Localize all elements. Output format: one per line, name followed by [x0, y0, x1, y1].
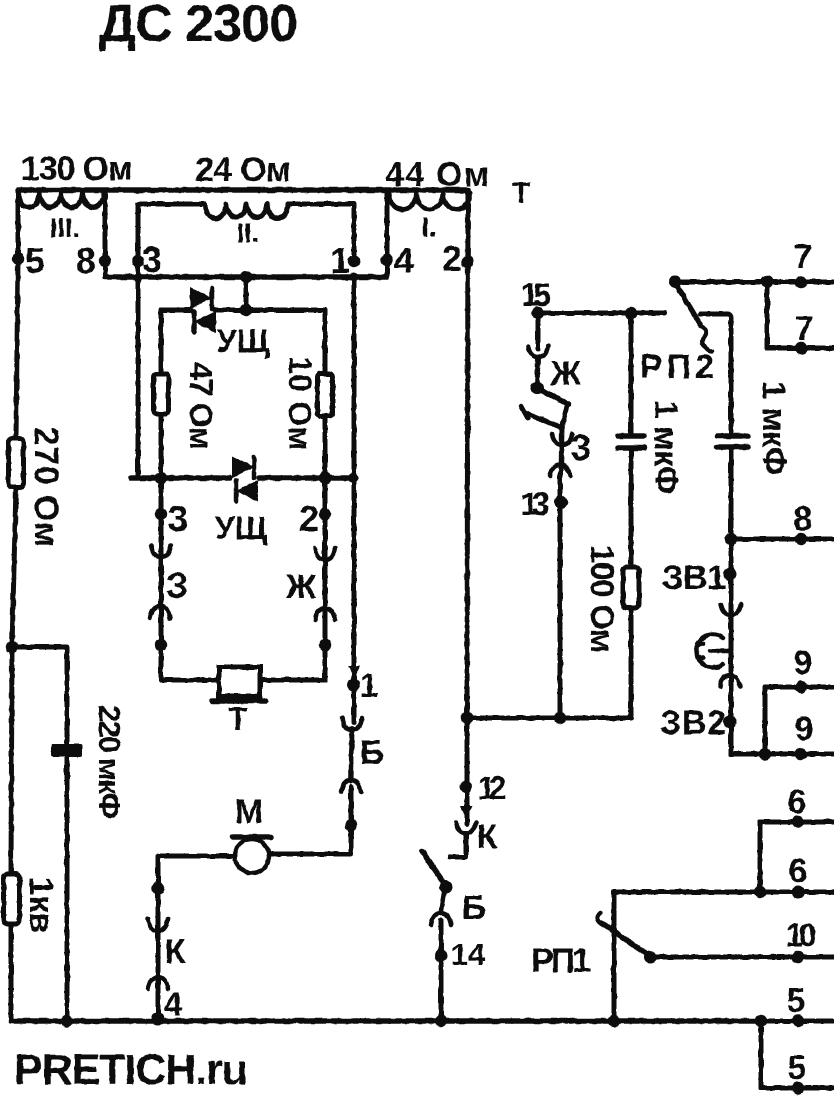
label 130 Ом (winding III resistance) [21, 150, 133, 188]
svg-text:1кв: 1кв [22, 877, 60, 933]
wire 13-branch down to node line [558, 473, 563, 718]
node terminal 5 upper [787, 982, 806, 1027]
svg-text:14: 14 [451, 937, 486, 972]
wire terminal 5 upper stub [761, 1019, 834, 1024]
svg-text:PRETICH.ru: PRETICH.ru [14, 1046, 248, 1094]
wire to ringer box T left side [161, 678, 219, 683]
svg-text:13: 13 [521, 486, 550, 522]
node terminal 10 [786, 917, 817, 963]
label РП2 [640, 348, 714, 386]
contact Б stem [351, 729, 352, 781]
svg-text:3: 3 [168, 498, 188, 539]
svg-text:8: 8 [76, 240, 96, 281]
node 3 [132, 239, 162, 280]
svg-text:24 Ом: 24 Ом [195, 151, 291, 189]
node rail/terminal-1 leg [348, 473, 358, 483]
svg-text:2: 2 [442, 238, 462, 279]
wire to ringer box T right side [260, 678, 325, 683]
contact Б stem on К branch [441, 888, 445, 912]
node terminal 9 lower [795, 710, 814, 760]
svg-text:9: 9 [794, 644, 813, 682]
contact К upper cup [148, 919, 168, 931]
resistor 270 Ом [9, 427, 66, 547]
node bus/leg-3 crossing [134, 273, 143, 282]
node junction 7 lines [761, 276, 773, 288]
node capacitor branch/bottom bus [61, 1015, 73, 1027]
title ДС 2300 [99, 0, 299, 53]
node junction 9 lines [759, 748, 771, 760]
node bus/leg-1 crossing [350, 273, 359, 282]
label 44 Ом (winding I resistance) [385, 156, 489, 194]
label РП1 [531, 942, 591, 980]
contact Б cup on К branch [431, 913, 451, 925]
svg-text:З: З [166, 565, 189, 606]
bell clapper tick [696, 644, 730, 658]
svg-text:РП2: РП2 [640, 348, 714, 386]
node 1 (pin) [347, 667, 378, 705]
svg-text:4: 4 [394, 240, 414, 281]
wire 12 branch down to contact К [465, 718, 470, 824]
svg-text:1 мкФ: 1 мкФ [648, 400, 685, 494]
node rail/right leg [319, 472, 331, 484]
label T (transformer designator) [512, 177, 530, 210]
contact РП1 hook [597, 913, 603, 925]
contact blade left serif [521, 406, 528, 419]
svg-text:7: 7 [795, 310, 814, 348]
svg-text:3: 3 [571, 427, 591, 468]
wire snubber branch down to node line [560, 608, 631, 718]
wire between capacitor and resistor 100 Ом [629, 448, 634, 567]
node terminal 9 upper [794, 644, 813, 693]
winding II of transformer T [138, 204, 354, 261]
contact З (lower cup) [150, 606, 170, 618]
wire left column down to resistor 1кв [11, 647, 12, 874]
winding I of transformer T [389, 193, 470, 242]
wire inner box right leg with resistor 10 Ом [323, 310, 328, 478]
node below contact З [155, 639, 167, 651]
svg-text:1 мкФ: 1 мкФ [756, 381, 793, 475]
contact З (upper cup) [151, 545, 171, 557]
wire between 9 stubs [763, 687, 768, 754]
svg-text:10 Ом: 10 Ом [282, 356, 318, 450]
svg-text:Т: Т [228, 701, 248, 737]
svg-text:47 Ом: 47 Ом [183, 362, 219, 450]
wire terminal 2 long vertical [467, 190, 468, 718]
wire left leg of terminal 3 down to lower rail [136, 261, 141, 478]
node junction bus/centre tap [240, 271, 252, 283]
resistor 10 Ом [282, 356, 333, 450]
label Б of contact on К branch [462, 889, 486, 927]
svg-text:15: 15 [521, 277, 551, 313]
surge arrester УЩ upper (diac symbol) [190, 287, 270, 359]
node blade pivot РП2 [669, 276, 682, 289]
wire branch to capacitor 220 мкФ [12, 645, 67, 650]
node pivot of changeover blade [531, 382, 544, 395]
svg-text:I.: I. [421, 212, 436, 242]
node junction top of arrester network [240, 304, 252, 316]
label Ж of contact [285, 568, 317, 606]
bell gong (curl) [696, 635, 723, 668]
node terminal 6 upper [788, 783, 807, 828]
wire terminal 7 lower stub [767, 346, 834, 351]
wire terminal 6 upper stub [760, 820, 834, 825]
contact З cup b [550, 465, 570, 476]
svg-text:130 Ом: 130 Ом [21, 150, 133, 188]
contact Ж changeover upper cup [528, 346, 548, 357]
svg-text:4: 4 [164, 986, 183, 1024]
wire left column from node 5 down [16, 259, 18, 438]
ringer box Т [212, 667, 266, 737]
node terminal 5 lower [788, 1049, 807, 1094]
contact Ж changeover stem [537, 358, 538, 388]
node 2 on right contact branch [299, 498, 331, 539]
wire bottom bus [11, 1018, 761, 1024]
svg-text:9: 9 [795, 710, 814, 748]
svg-text:Б: Б [360, 734, 384, 772]
svg-text:ЗВ2: ЗВ2 [660, 704, 726, 742]
node 15 [521, 277, 551, 319]
wire 15 horizontal line [538, 311, 665, 316]
node junction 2-line/718 [461, 712, 473, 724]
node blade end [440, 881, 453, 894]
node 1 [330, 240, 360, 281]
wire left column to bottom bus [9, 924, 14, 1021]
contact blade lower diagonal [526, 413, 562, 428]
node blade end РП1 [644, 951, 657, 964]
label К of contact [477, 818, 498, 856]
node 2 [442, 238, 474, 279]
wire from motor left to contact К branch [158, 856, 235, 1021]
arrow on wire 12 [460, 806, 472, 818]
node ЗВ2 [660, 704, 737, 742]
node rail/left leg [155, 472, 167, 484]
contact К lower cup [148, 977, 168, 989]
node terminal 8 [794, 500, 813, 545]
node 13 [521, 486, 568, 522]
wire terminal 10 line [650, 955, 834, 960]
node 4 on bottom bus [152, 986, 183, 1026]
node junction 6 lines [754, 886, 766, 898]
wire inner box left leg with resistor 47 Ом [159, 310, 164, 478]
node terminal 6 lower [789, 852, 808, 899]
wire below blade to contact З [561, 428, 562, 473]
arrow on wire 1 [348, 666, 360, 678]
contact blade upper diagonal [537, 388, 568, 404]
contact К cup [456, 822, 476, 833]
watermark PRETICH.ru [14, 1046, 248, 1094]
contact З cup a [552, 434, 572, 445]
node 8 [76, 240, 111, 281]
wire between 7 stubs [765, 282, 770, 348]
svg-text:8: 8 [794, 500, 813, 538]
wire terminal 6 lower line [614, 890, 834, 895]
node 3 on left contact branch [155, 498, 188, 539]
contact blade right side [562, 404, 567, 428]
wire right contact branch below rail (to contact Ж) [323, 478, 328, 680]
svg-text:К: К [477, 818, 498, 856]
svg-text:2: 2 [299, 498, 319, 539]
resistor 47 Ом [154, 362, 220, 450]
wire between 5 stubs [759, 1021, 764, 1088]
wire capacitor branch down to bottom bus [65, 647, 70, 1021]
svg-text:270 Ом: 270 Ом [27, 427, 65, 547]
node junction 13-branch/718 [554, 712, 566, 724]
svg-text:ДС 2300: ДС 2300 [99, 0, 299, 53]
wire horizontal bus under windings [105, 274, 387, 280]
svg-text:Ж: Ж [285, 568, 317, 606]
svg-text:12: 12 [478, 770, 507, 806]
node 14-branch/bottom bus [435, 1015, 447, 1027]
node 4 [381, 240, 414, 281]
resistor 100 Ом [584, 545, 639, 653]
label З of contact [166, 565, 189, 606]
svg-text:5: 5 [787, 982, 806, 1020]
svg-text:III.: III. [50, 213, 80, 243]
wire snubber branch (capacitor + resistor) [629, 313, 634, 436]
node 14 [435, 937, 486, 972]
contact К fixed foot [450, 833, 466, 857]
wire bell branch corner to 9 line [731, 752, 834, 757]
node on motor wire [345, 819, 357, 831]
wire from contact Б down to bottom bus [439, 920, 444, 1021]
wire horizontal node line y718 [467, 716, 631, 721]
node above contact К [152, 882, 164, 894]
label 24 Ом (winding II resistance) [195, 151, 291, 189]
contact Б lower cup [341, 780, 361, 792]
contact РП1 blade [602, 923, 648, 955]
node 5 [12, 240, 45, 281]
wire lower rail of arrester network [131, 475, 230, 481]
wire bell branch capacitor to corner [729, 447, 734, 754]
contact РП2 blade tail [701, 326, 712, 352]
contact РП2 blade [675, 282, 701, 326]
label Б of contact [360, 734, 384, 772]
wire left column resistor to lower junction [12, 487, 16, 647]
wire leg to terminal 4 [385, 193, 390, 277]
node РП1/bottom bus [608, 1015, 620, 1027]
wire inner box top line left part [161, 308, 191, 313]
wire terminal 1 branch down to contact Б [352, 277, 357, 723]
node junction 8-line [725, 533, 737, 545]
svg-text:М: М [235, 793, 263, 831]
svg-text:Б: Б [462, 889, 486, 927]
label Ж of changeover contact [550, 355, 582, 393]
svg-text:10: 10 [786, 917, 817, 953]
contact Б upper cup [342, 718, 362, 730]
contact Ж (lower cup) [315, 608, 335, 620]
wire terminal 5 lower stub [761, 1086, 834, 1091]
surge arrester УЩ lower (diac symbol) [215, 456, 268, 546]
node junction 15-line/snubber branch [625, 307, 637, 319]
wire РП1 fixed vertical [612, 892, 617, 1021]
bell contact upper cup [721, 604, 741, 615]
node 12 [460, 770, 507, 806]
svg-text:6: 6 [789, 852, 808, 890]
contact К blade diagonal [422, 851, 446, 886]
svg-text:К: К [165, 933, 186, 971]
wire РП2 fixed segment into bell branch [700, 314, 731, 436]
wire from winding II centre tap down to surge arrester box [244, 277, 249, 310]
capacitor 1 мкФ (right) [717, 381, 793, 475]
node terminal 7 lower [795, 310, 814, 354]
resistor 1кв [4, 874, 61, 933]
svg-text:3: 3 [142, 239, 162, 280]
svg-text:Т: Т [512, 177, 530, 210]
capacitor 220 мкФ [51, 705, 127, 819]
wire between 6 stubs [758, 822, 763, 892]
wire from contact Б down and left to motor [269, 787, 351, 854]
svg-text:Ж: Ж [550, 355, 582, 393]
bell contact lower cup [720, 675, 740, 687]
svg-text:ЗВ1: ЗВ1 [662, 559, 726, 597]
wire top bus [18, 187, 468, 193]
wire leg to terminal 5 [16, 191, 21, 259]
contact Ж (upper cup) [315, 548, 335, 560]
capacitor 1 мкФ (left) [618, 400, 685, 494]
node below contact Ж [319, 639, 331, 651]
svg-text:5: 5 [25, 240, 45, 281]
svg-text:II.: II. [237, 218, 260, 248]
node left column junction [6, 641, 18, 653]
wire leg from winding III to terminal 8 and bus [103, 193, 108, 277]
wire terminal 9 upper stub [765, 685, 834, 690]
label К of contact [165, 933, 186, 971]
svg-text:1: 1 [360, 667, 379, 705]
svg-text:220 мкФ: 220 мкФ [92, 705, 127, 819]
wire terminal 8 line [731, 537, 834, 542]
svg-text:7: 7 [794, 238, 813, 276]
wire left contact branch below rail (to contact З) [159, 478, 164, 680]
wire 13-branch upper stub [536, 313, 541, 349]
svg-text:100 Ом: 100 Ом [584, 545, 621, 653]
wire terminal 7 line [675, 280, 834, 285]
winding III of transformer T [18, 193, 104, 243]
svg-text:6: 6 [788, 783, 807, 821]
node ЗВ1 [662, 559, 737, 597]
wire inner box top line right part [215, 308, 325, 313]
svg-text:УЩ: УЩ [217, 323, 270, 359]
node bus corner to 5 stubs [755, 1015, 767, 1027]
label З of contact on 13-branch [571, 427, 591, 468]
node terminal 7 upper [794, 238, 813, 288]
svg-text:УЩ: УЩ [215, 510, 268, 546]
svg-text:РП1: РП1 [531, 942, 591, 980]
motor М [233, 793, 271, 873]
svg-text:5: 5 [788, 1049, 807, 1087]
